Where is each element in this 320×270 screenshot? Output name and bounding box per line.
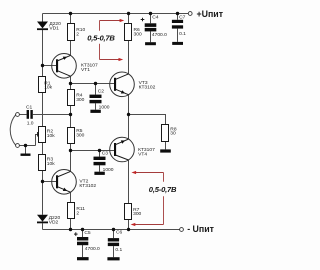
arrow R6 top xyxy=(120,19,125,22)
svg-text:300: 300 xyxy=(134,31,142,37)
node rail R10 xyxy=(69,12,72,15)
svg-text:0.1: 0.1 xyxy=(179,31,186,37)
resistor R1 xyxy=(39,77,53,93)
wire lower input to riser xyxy=(19,145,35,147)
ground C4 xyxy=(145,42,156,45)
arrow R6 bottom xyxy=(119,58,124,61)
svg-text:1.0: 1.0 xyxy=(27,121,34,127)
wire VT2 collector node to VT4 base xyxy=(71,150,115,152)
wire left column top xyxy=(42,14,44,22)
svg-text:2: 2 xyxy=(76,211,79,217)
transistor VT3 xyxy=(110,72,156,97)
svg-text:0.1: 0.1 xyxy=(115,247,122,253)
wire R1 to R2 xyxy=(42,93,44,127)
wire C1 to R4R5 junction xyxy=(33,114,71,116)
wire C6 lead xyxy=(113,230,115,239)
node output xyxy=(127,113,130,116)
terminal -U xyxy=(180,228,184,232)
wire C2 lead xyxy=(95,84,97,95)
svg-text:2: 2 xyxy=(76,31,79,37)
capacitor C6 xyxy=(108,230,123,253)
wire bottom rail xyxy=(43,229,180,231)
svg-text:4700.0: 4700.0 xyxy=(152,32,167,38)
ground C7 xyxy=(172,42,183,45)
wire C4 lead xyxy=(150,14,152,24)
resistor R8 xyxy=(162,125,177,142)
svg-text:0,5-0,7В: 0,5-0,7В xyxy=(87,34,115,43)
wire C7 lead xyxy=(177,14,179,20)
svg-text:C7: C7 xyxy=(179,14,186,20)
node rail C6 xyxy=(112,228,115,231)
resistor R3 xyxy=(39,155,56,171)
node input ground xyxy=(24,144,27,147)
node C3 tap xyxy=(98,149,101,152)
svg-text:10k: 10k xyxy=(47,133,55,139)
plus C5 xyxy=(74,232,78,236)
wire C7 to ground xyxy=(177,29,179,42)
node VT2 collector xyxy=(69,149,72,152)
wire VT4 collector to R7 xyxy=(128,160,130,204)
wire VT1 collector to node xyxy=(70,76,72,89)
svg-text:1000: 1000 xyxy=(99,104,110,110)
plus C4 xyxy=(141,18,145,22)
measure bracket R7 xyxy=(135,173,164,225)
svg-text:C3: C3 xyxy=(102,151,109,157)
wire C5 to ground xyxy=(82,245,84,258)
transistor VT4 xyxy=(110,137,155,162)
svg-text:0,5-0,7В: 0,5-0,7В xyxy=(149,185,177,194)
svg-text:VD2: VD2 xyxy=(49,220,59,226)
wire R3 to VD2 xyxy=(42,171,44,215)
svg-text:КТ3102: КТ3102 xyxy=(139,85,156,91)
diode VD1 xyxy=(37,21,61,31)
svg-text:300: 300 xyxy=(133,211,141,217)
node C2 tap xyxy=(94,82,97,85)
node VT1 base xyxy=(41,64,44,67)
svg-text:VT4: VT4 xyxy=(138,151,147,157)
wire VT1 base xyxy=(43,65,58,67)
arrow R7 top xyxy=(131,171,136,174)
node rail R7 xyxy=(127,228,130,231)
terminal input top xyxy=(16,113,20,117)
wire VD1 to R1 xyxy=(42,30,44,77)
resistor R5 xyxy=(68,128,85,144)
svg-text:C5: C5 xyxy=(84,230,91,236)
svg-text:VD1: VD1 xyxy=(49,25,59,31)
node rail C7 xyxy=(176,12,179,15)
diode VD2 xyxy=(37,215,60,226)
resistor R10 xyxy=(68,24,86,41)
terminal +U xyxy=(188,12,192,16)
wire riser to R2 wiper xyxy=(36,135,38,146)
svg-text:300: 300 xyxy=(76,133,84,139)
wire node A to VT3 base xyxy=(71,83,115,85)
svg-text:300: 300 xyxy=(76,97,84,103)
node R4 R5 xyxy=(69,113,72,116)
wire R6 to VT3 collector xyxy=(128,41,130,74)
svg-text:C1: C1 xyxy=(26,105,33,111)
wire R11 to bottom rail xyxy=(70,219,72,230)
svg-text:4700.0: 4700.0 xyxy=(85,246,100,252)
node rail R11 xyxy=(69,228,72,231)
node rail R6 xyxy=(127,12,130,15)
node rail C4 xyxy=(149,12,152,15)
svg-text:- Uпит: - Uпит xyxy=(187,224,214,234)
svg-text:C4: C4 xyxy=(152,14,159,20)
capacitor C5 xyxy=(77,230,100,252)
wire VD2 to bottom rail xyxy=(42,223,44,229)
ground input xyxy=(21,154,31,156)
wire C6 to ground xyxy=(113,246,115,257)
wire R10 to VT1 emitter xyxy=(70,41,72,56)
ground C3 xyxy=(94,172,104,175)
resistor R7 xyxy=(125,204,142,220)
wire R7 to bottom rail xyxy=(128,220,130,230)
svg-text:C2: C2 xyxy=(98,89,105,95)
wire top rail xyxy=(43,13,189,15)
wire C3 lead xyxy=(99,151,101,157)
transistor VT1 xyxy=(52,54,98,79)
wire C1 input to plates xyxy=(19,114,26,116)
ground C2 xyxy=(90,110,100,113)
node rail C5 xyxy=(81,228,84,231)
svg-text:10k: 10k xyxy=(47,161,55,167)
resistor R4 xyxy=(68,90,85,106)
wire R4 to R5 xyxy=(70,106,72,128)
wire output node to R8 xyxy=(129,115,166,125)
capacitor C2 xyxy=(90,89,110,111)
arrow R7 bottom xyxy=(131,223,136,226)
wire rail to R6 xyxy=(128,14,130,24)
capacitor C4 xyxy=(145,14,167,38)
trimmer R2 xyxy=(38,127,56,143)
wire C2 to ground xyxy=(95,103,97,109)
wire rail to R10 xyxy=(70,14,72,24)
svg-text:VT1: VT1 xyxy=(81,67,90,73)
wire VT2 emitter to R11 xyxy=(70,192,72,202)
capacitor C3 xyxy=(94,151,114,173)
svg-text:30: 30 xyxy=(170,131,176,137)
svg-text:10k: 10k xyxy=(44,85,52,91)
node VT1 collector xyxy=(69,82,72,85)
wire R2 to R3 xyxy=(42,143,44,155)
wire R8 to ground xyxy=(165,142,167,150)
wire C4 to ground xyxy=(150,31,152,42)
ground R8 xyxy=(160,149,171,152)
transistor VT2 xyxy=(52,170,97,195)
input source arc xyxy=(10,115,16,146)
capacitor C1 xyxy=(26,105,34,127)
capacitor C7 xyxy=(172,14,186,37)
wire C3 to ground xyxy=(99,165,101,171)
resistor R11 xyxy=(68,203,86,219)
ground C5 xyxy=(77,257,89,260)
svg-text:+Uпит: +Uпит xyxy=(197,9,224,19)
wire C5 lead xyxy=(82,230,84,238)
wire VT3 emitter to output node xyxy=(128,95,130,139)
node VT2 base xyxy=(41,180,44,183)
wire R5 to VT2 collector node xyxy=(70,144,72,172)
ground C6 xyxy=(107,257,119,260)
terminal input bottom xyxy=(16,144,20,148)
resistor R6 xyxy=(125,24,142,41)
svg-text:КТ3102: КТ3102 xyxy=(79,183,96,189)
svg-text:C6: C6 xyxy=(116,230,123,236)
measure bracket R6 xyxy=(100,21,121,60)
wire ground drop lower input xyxy=(25,146,27,154)
wire VT2 base xyxy=(43,181,58,183)
